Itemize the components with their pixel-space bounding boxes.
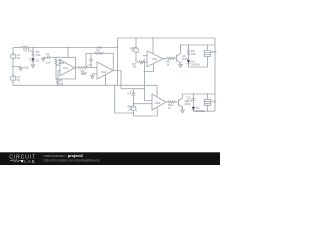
svg-text:1A: 1A [131,49,135,53]
wire U1 output [75,67,78,69]
wire LED-ground [32,62,34,65]
wire D3 bottom [193,110,215,111]
svg-text:SP1: SP1 [211,50,217,54]
watermark bar [0,152,220,165]
wire supply stub U3 [152,38,154,54]
resistor R8 [167,57,175,59]
wire gnd-cap [43,56,48,58]
svg-text:D1: D1 [36,59,40,63]
ground GND4 [91,74,95,79]
wire U4 input A [145,100,153,102]
wire supply stub to box [67,48,69,58]
wire R2 branch top [32,48,34,51]
op-amp U1 feedback box [56,57,76,79]
svg-text:1N4001: 1N4001 [191,63,200,66]
wire R4 to U2 [88,67,97,69]
LED D1 [31,58,34,61]
wire pot to U3 [146,61,147,63]
ammeter AM2 [131,106,136,111]
transistor Q2 [178,99,180,106]
svg-text:C2: C2 [88,63,92,67]
speaker SP2 [204,94,210,111]
wire U2 output [113,71,121,89]
wire Q2 emitter [182,107,184,110]
wire R2-LED [32,57,34,59]
credit text [44,153,100,162]
resistor R1 (series on top rail) [22,46,30,49]
svg-text:C1: C1 [46,52,50,56]
wire lower link [121,88,145,90]
capacitor C4 (lower chain) [132,89,136,106]
svg-text:marcioawan / project2: marcioawan / project2 [44,153,84,158]
svg-text:1uF: 1uF [46,61,51,65]
wire mid-supply ground branch [13,67,21,68]
svg-text:OA2: OA2 [101,70,107,74]
wire V2 bottom lead [12,81,14,85]
svg-text:OA1: OA1 [63,66,69,70]
wire V1-V2 [12,59,14,76]
wire lower block top [183,93,216,95]
wire top rail left [13,47,22,49]
value labels [17,46,217,114]
ground GND2 [31,65,35,68]
resistor R5 (to rail below box) [57,79,59,85]
potentiometer R7 [139,61,146,63]
wire U3 feedback loop [145,62,154,101]
svg-text:OA4: OA4 [155,101,161,105]
svg-text:1N4001: 1N4001 [196,110,205,113]
svg-text:10k: 10k [59,82,64,86]
resistor R4 (inter-stage) [78,66,88,68]
wire U4 input B [134,103,153,105]
wire AM2 to feedback [134,108,158,116]
op-amp U1 [60,60,75,76]
svg-text:GND: GND [23,65,29,69]
op-amp U4 [152,94,166,110]
svg-text:9V: 9V [17,56,21,60]
svg-text:100k: 100k [96,46,103,50]
ground GND5 [179,65,183,68]
ammeter AM1 [135,38,137,48]
wire Q2 collector [182,94,184,98]
wire bottom rail [13,84,157,86]
wire U3 + stub [143,55,147,57]
voltage source V1 [11,54,16,59]
capacitor C2 (feedback) [89,53,93,67]
speaker SP1 [204,45,210,67]
wire AM1 down [136,52,139,62]
resistor R10 [168,101,176,103]
wire Q1 collector [180,45,182,53]
svg-text:2N39: 2N39 [184,103,191,106]
svg-text:100k: 100k [58,61,65,65]
wire U2 - input stub [92,73,97,75]
wire top-right rail [181,44,216,46]
wire cap to OA1 box [49,56,56,58]
svg-text:GND: GND [81,71,87,75]
diode D2 [187,60,190,63]
svg-text:SP2: SP2 [211,99,217,103]
wire mid riser x117 [117,38,119,85]
ground GND3 (cap chain) [42,57,46,61]
resistor R3 (feedback, left edge) [55,57,57,79]
wire U3 output [163,58,167,60]
wire Q1 emitter [180,63,182,65]
svg-text:LAB: LAB [24,159,35,164]
wire U4 output [166,101,168,103]
wire top rail left cont [29,47,117,49]
diode D3 [192,107,195,110]
op-amp U3 [147,51,163,67]
svg-text:2N39: 2N39 [182,58,189,61]
op-amp U2 [97,62,113,79]
wire R8 to Q1 [175,57,177,59]
capacitor C1 [48,56,50,60]
resistor R2 [32,50,34,57]
resistor R9 [188,45,190,60]
wire right edge [214,38,216,111]
wire rail drop x114 [115,85,134,113]
wire D2 bottom [189,63,208,67]
wire U2 bottom to rail [105,75,107,86]
resistor R6 (feedback top) [95,52,103,54]
ground GND1 [19,68,23,71]
voltage source V2 [11,76,16,81]
svg-text:R1 1k: R1 1k [24,49,32,53]
wire U1 inputs [56,65,60,79]
svg-text:100u: 100u [187,99,193,102]
svg-text:http://circuitlab.com/c/pr8kq6: http://circuitlab.com/c/pr8kq6kkaxtz [44,158,100,162]
svg-text:10k: 10k [132,65,137,68]
svg-text:330: 330 [36,53,41,57]
capacitor C5 [192,94,196,107]
svg-text:9V: 9V [17,78,21,82]
svg-text:1A: 1A [128,107,132,111]
op-amp U2 feedback box [86,53,113,70]
ground GND6 [181,110,185,113]
CircuitLab logo [9,155,36,164]
wire top rail right [118,37,216,39]
junction dots [12,37,208,114]
svg-text:100: 100 [191,52,196,56]
wire R10 to Q2 [175,101,178,103]
transistor Q1 [176,55,178,62]
svg-text:OA3: OA3 [152,57,158,61]
wire U4 top input [156,85,158,96]
svg-text:+: + [130,90,132,94]
wire V1 top lead [12,48,14,54]
